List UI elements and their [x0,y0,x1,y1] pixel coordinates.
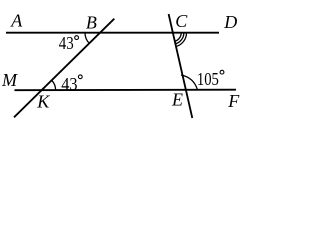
svg-text:43: 43 [59,33,74,53]
svg-text:E: E [171,89,183,109]
svg-text:B: B [86,13,97,33]
svg-text:105: 105 [197,69,219,89]
svg-text:F: F [227,91,240,111]
svg-text:43: 43 [61,74,77,94]
svg-text:M: M [1,70,18,90]
svg-text:D: D [223,12,237,32]
svg-text:A: A [10,11,23,31]
svg-text:K: K [36,91,50,111]
svg-text:C: C [175,11,188,31]
